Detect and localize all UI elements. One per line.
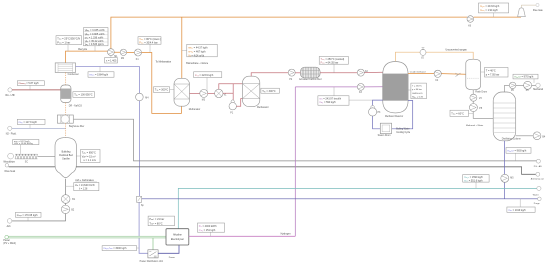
value box NaNO3 flow bbox=[17, 81, 44, 90]
mixer M4 on water line bbox=[136, 93, 150, 101]
svg-text:yₕ₂ = 1.336 vol%: yₕ₂ = 1.336 vol% bbox=[85, 36, 104, 39]
baghouse filter unit bbox=[57, 115, 84, 128]
svg-text:mₕ₂ₒ = 1984 kg/h: mₕ₂ₒ = 1984 kg/h bbox=[89, 74, 108, 77]
value box flash drum conditions bbox=[481, 68, 508, 78]
svg-text:Cooling Cycle: Cooling Cycle bbox=[396, 132, 411, 134]
stream label Flue Gas bbox=[533, 9, 544, 12]
methanator column R1 bbox=[174, 78, 201, 111]
wire dashed orange condenser to DR vessel bbox=[65, 72, 67, 85]
stream label boiling water cycle bbox=[396, 128, 411, 134]
steam drum heat exchanger bbox=[378, 123, 392, 137]
svg-text:Vᵍ = 4.04 m³/h: Vᵍ = 4.04 m³/h bbox=[188, 54, 205, 57]
svg-text:p = 7.05 bar: p = 7.05 bar bbox=[486, 73, 500, 76]
activated carbon guard bed bbox=[299, 67, 322, 81]
mixer M2 bbox=[120, 49, 126, 60]
svg-text:Pₑₗₑᶜ = 21 bar: Pₑₗₑᶜ = 21 bar bbox=[149, 218, 164, 221]
wire biomass line into gasifier bbox=[38, 156, 56, 158]
pump K7 bbox=[469, 104, 482, 112]
wire pink M3 to valve V1 bbox=[207, 92, 214, 94]
wire pink bed to compressor K2 to reactor bbox=[320, 71, 383, 74]
svg-text:mₘₑₒₕ = 983 kg/h: mₘₑₒₕ = 983 kg/h bbox=[507, 150, 527, 153]
svg-text:Electrolyser: Electrolyser bbox=[171, 238, 184, 241]
condenser heat exchanger bbox=[55, 63, 79, 76]
svg-text:Pₒᵤₜ = 1 bar: Pₒᵤₜ = 1 bar bbox=[57, 42, 70, 45]
svg-text:x = 1.405: x = 1.405 bbox=[106, 59, 117, 62]
svg-text:Purge: Purge bbox=[534, 202, 541, 205]
mixer M1 bbox=[108, 49, 119, 58]
valve V1 bbox=[215, 89, 228, 97]
svg-text:Tₒₚ = 300°C: Tₒₚ = 300°C bbox=[155, 89, 169, 92]
svg-text:Gasifier: Gasifier bbox=[62, 158, 70, 161]
reboiler B4 bbox=[533, 132, 546, 140]
wire flash drum bottoms down bbox=[473, 90, 493, 119]
svg-text:Fluidized Bed: Fluidized Bed bbox=[59, 155, 73, 157]
alkaline electrolyser unit bbox=[166, 229, 189, 245]
svg-text:mₐₛₕ = 170.08 kg/h: mₐₛₕ = 170.08 kg/h bbox=[17, 214, 38, 217]
wire gray baghouse outlet to producer gas header bbox=[74, 119, 537, 161]
condenser pump C1 bbox=[509, 82, 516, 92]
power distribution unit bbox=[140, 250, 164, 263]
svg-text:Power Distribution Unit: Power Distribution Unit bbox=[140, 260, 164, 263]
svg-text:T = 250°C: T = 250°C bbox=[412, 86, 422, 88]
stream label methanol product bbox=[533, 88, 543, 91]
svg-text:Recycle: Recycle bbox=[78, 48, 88, 51]
value box outlet temperature bbox=[450, 110, 473, 116]
wire M1 to M2 bbox=[114, 51, 120, 53]
svg-text:T = 40°C: T = 40°C bbox=[486, 69, 496, 72]
value box R1 temperature bbox=[154, 87, 175, 93]
svg-text:Activated Carbon Bed: Activated Carbon Bed bbox=[299, 78, 322, 81]
svg-text:yᶄₒ₂ = 0.905 vol%: yᶄₒ₂ = 0.905 vol% bbox=[85, 33, 105, 36]
check valve mark bbox=[456, 73, 461, 77]
gasifier vessel bbox=[55, 138, 76, 178]
value box methanol product bbox=[513, 74, 538, 83]
svg-text:mₙ₂ = 117.9 kg/h: mₙ₂ = 117.9 kg/h bbox=[19, 121, 38, 124]
wire pale orange recycle reactor top from flash drum bbox=[395, 52, 473, 61]
svg-text:Methanol: Methanol bbox=[533, 88, 543, 91]
wire: orange top recycle line M1 to flare bbox=[111, 17, 521, 49]
value box syngas flow bbox=[194, 72, 222, 94]
methanator column R2 bbox=[243, 76, 269, 109]
outlet circle ash bbox=[7, 219, 12, 229]
wire reboiler line bbox=[516, 135, 533, 137]
wire M2 to K1 bbox=[127, 51, 135, 53]
methanol reactor vessel bbox=[383, 62, 408, 118]
svg-text:Flash Drum: Flash Drum bbox=[475, 90, 487, 93]
value box T/P after condenser bbox=[56, 36, 82, 51]
svg-text:Methanol Reactor: Methanol Reactor bbox=[385, 115, 403, 118]
splitter S1 on water line bbox=[137, 196, 145, 207]
svg-text:N2 - Fluid.: N2 - Fluid. bbox=[6, 133, 17, 135]
svg-text:yₙ₂ = 0.633 ppmv: yₙ₂ = 0.633 ppmv bbox=[85, 43, 105, 46]
value box demin water bbox=[102, 246, 139, 251]
svg-text:Olive husk: Olive husk bbox=[4, 171, 16, 173]
value box electrolyser water oxygen bbox=[463, 175, 489, 189]
outlet circle water bbox=[533, 186, 541, 196]
steam loop wire reactor cooling bbox=[373, 100, 413, 129]
wire purple hydrogen to compressor K3 and reactor bbox=[295, 86, 382, 88]
pump P3 steam loop with motor dome bbox=[369, 105, 382, 116]
svg-text:Boiling Water: Boiling Water bbox=[396, 128, 410, 131]
svg-text:Biomethane - mixture: Biomethane - mixture bbox=[186, 62, 209, 65]
feed circle renewable power bbox=[3, 235, 16, 245]
valve V3 bbox=[470, 94, 483, 101]
svg-text:Vᵦₑᵈ = 15 m³: Vᵦₑᵈ = 15 m³ bbox=[82, 155, 96, 158]
svg-text:Water: Water bbox=[533, 193, 539, 196]
value box air flow bbox=[66, 183, 99, 191]
compressor K3 bbox=[357, 84, 364, 95]
node label Recycle bbox=[78, 48, 88, 51]
wire green drop to power distribution unit bbox=[152, 238, 154, 250]
outlet circle purge bbox=[534, 197, 541, 205]
svg-text:LHV = 19.96 MJ/kg: LHV = 19.96 MJ/kg bbox=[14, 143, 33, 145]
svg-text:mₙₐₙₒ₃ = 5.87 kg/h: mₙₐₙₒ₃ = 5.87 kg/h bbox=[19, 82, 40, 85]
svg-text:PG - AD: PG - AD bbox=[534, 165, 542, 168]
wire dashed orange baghouse to gasifier top bbox=[65, 123, 67, 137]
mixer M5 bbox=[501, 174, 514, 182]
feed circle N2 bbox=[6, 126, 17, 135]
wire pink V1 up and to methanator R2 bbox=[219, 84, 243, 103]
svg-text:Xᶄₒ₂ = 0.35: Xᶄₒ₂ = 0.35 bbox=[412, 96, 424, 98]
wire: orange recycle gas line condenser-to-mixer M1 bbox=[66, 51, 108, 63]
wire dashed orange DR to baghouse filter bbox=[65, 103, 67, 116]
pump P1 with motor dome bbox=[229, 100, 236, 115]
wire pink P1 discharge into R2 bottom bbox=[236, 99, 242, 107]
value box bed outlet above bbox=[319, 57, 348, 73]
svg-text:Baghouse filter: Baghouse filter bbox=[69, 125, 85, 128]
wire orange K1 to methanator R1 bottom bbox=[142, 53, 182, 114]
outlet circle methanol bbox=[536, 83, 540, 87]
svg-text:mₘₑₒₕ = 970 kg/h: mₘₑₒₕ = 970 kg/h bbox=[514, 76, 534, 79]
wire purple hydrogen header vertical bbox=[294, 87, 296, 236]
stream label power bbox=[169, 256, 175, 259]
wire blue power PDU to electrolyser bbox=[158, 245, 179, 253]
wire distillate overhead line bbox=[505, 85, 536, 92]
relief valve V2 on recycle bbox=[420, 48, 426, 60]
svg-text:u = 1.1 m/s: u = 1.1 m/s bbox=[84, 159, 97, 162]
wire producer gas from gasifier right to ammonia outlet bbox=[76, 167, 536, 175]
svg-text:λ = 1.28: λ = 1.28 bbox=[79, 189, 88, 191]
blower B1 bbox=[61, 195, 75, 204]
value box electrolyser conditions bbox=[148, 216, 174, 226]
wire indigo waste water header bbox=[142, 198, 538, 200]
svg-text:Power: Power bbox=[3, 239, 10, 242]
stream label methanol water bbox=[466, 124, 484, 127]
svg-text:To Methanation: To Methanation bbox=[156, 61, 172, 64]
svg-text:mᵥᵥ = 1019 kg/h: mᵥᵥ = 1019 kg/h bbox=[508, 209, 526, 212]
svg-text:Power: Power bbox=[169, 256, 175, 259]
feed circle olive husk bbox=[4, 164, 16, 173]
value box gasifier conditions bbox=[76, 150, 100, 163]
svg-text:nₕ₂ = 243.97 kmol/h: nₕ₂ = 243.97 kmol/h bbox=[319, 97, 342, 100]
flash drum vessel bbox=[466, 59, 487, 93]
feed circle RA-LHF bbox=[6, 88, 16, 97]
compressor K2 bbox=[357, 69, 368, 76]
svg-text:DR - NaNO3: DR - NaNO3 bbox=[69, 106, 83, 108]
wire pink R2 top to guard bed bbox=[251, 73, 288, 76]
pump P2 bbox=[288, 69, 295, 81]
wire column bottoms down to mixer M5 bbox=[504, 141, 506, 199]
wire teal oxygen water line from electrolyser bbox=[178, 188, 537, 228]
condenser K8 bbox=[524, 81, 532, 92]
solids discharge wire from gasifier bottom bbox=[12, 179, 66, 221]
stream label Woodchips bbox=[3, 162, 15, 164]
value box N2 flow bbox=[17, 119, 45, 128]
svg-text:Distillation Column: Distillation Column bbox=[502, 137, 522, 140]
svg-text:Bubbling: Bubbling bbox=[62, 151, 72, 153]
svg-text:Methanator: Methanator bbox=[189, 108, 201, 111]
svg-text:GHSV=0.5: GHSV=0.5 bbox=[412, 93, 423, 95]
wire olive husk line into gasifier bbox=[9, 166, 55, 168]
svg-text:mᵍₐₛ = 44.37 kg/h: mᵍₐₛ = 44.37 kg/h bbox=[188, 46, 208, 49]
screw conveyor SC feed bbox=[8, 153, 38, 163]
value box hydrogen production bbox=[198, 223, 225, 236]
svg-text:Methanol + Water: Methanol + Water bbox=[466, 124, 484, 127]
svg-text:Pₑₗ = 4000 kW/h: Pₑₗ = 4000 kW/h bbox=[199, 225, 217, 228]
value box R2 temperature bbox=[261, 88, 280, 93]
wire orange recycle drop into methanator R1 top bbox=[181, 17, 183, 78]
svg-text:Tₒᵤₜ = 25°C/350°C/N: Tₒᵤₜ = 25°C/350°C/N bbox=[57, 38, 80, 41]
svg-text:Methanator: Methanator bbox=[257, 106, 269, 109]
mixer M3 bbox=[200, 89, 208, 101]
packed vessel DR-NaNO3 bbox=[61, 85, 83, 108]
svg-text:Ammonia out: Ammonia out bbox=[531, 178, 544, 181]
value box bottoms flow bbox=[506, 148, 531, 162]
value box recycle gas composition bbox=[182, 44, 217, 57]
stream label crude methanol bbox=[410, 71, 426, 74]
distillation column bbox=[493, 92, 521, 141]
svg-text:p = 80 bar: p = 80 bar bbox=[412, 88, 422, 91]
svg-text:Flue Gas: Flue Gas bbox=[533, 9, 544, 12]
svg-text:Vₐᵢᵣ = 13,640 Nm³/h: Vₐᵢᵣ = 13,640 Nm³/h bbox=[75, 184, 96, 187]
wire pink R1 outlet to M3 bbox=[190, 92, 201, 94]
svg-text:Alkaline: Alkaline bbox=[173, 234, 182, 237]
svg-text:SC: SC bbox=[25, 162, 29, 164]
svg-text:Pₒᵤₜ = 64.35 bar: Pₒᵤₜ = 64.35 bar bbox=[321, 62, 339, 65]
value box DR temperature bbox=[73, 92, 95, 98]
svg-text:Woodchips: Woodchips bbox=[3, 162, 15, 164]
value box ash flow bbox=[15, 212, 41, 221]
value box after K1 bbox=[138, 37, 161, 53]
svg-text:Crude methanol: Crude methanol bbox=[410, 71, 426, 74]
value box biomass feed bbox=[13, 140, 39, 154]
value box hydrogen flow bbox=[318, 87, 373, 105]
svg-text:Steam Drum: Steam Drum bbox=[378, 134, 391, 137]
value box condensate flow bbox=[88, 67, 114, 78]
svg-text:mₛᵧ = 223.9 kg/h: mₛᵧ = 223.9 kg/h bbox=[195, 74, 214, 77]
svg-text:Hydrogen: Hydrogen bbox=[281, 232, 292, 235]
stream label to methanation bbox=[156, 61, 172, 64]
value box vapor fraction under M1 bbox=[105, 56, 118, 64]
stream label hydrogen bbox=[281, 232, 292, 235]
outlet circle producer gas to AD bbox=[534, 159, 542, 168]
svg-text:Tₒᵤₜ = 60°C: Tₒᵤₜ = 60°C bbox=[451, 112, 464, 115]
compressor K6 on top line bbox=[467, 16, 474, 28]
flare stack bbox=[518, 3, 540, 16]
svg-text:mₒᵤₜ = 1.94 kg/h: mₒᵤₜ = 1.94 kg/h bbox=[480, 9, 498, 12]
svg-text:Unconverted syngas: Unconverted syngas bbox=[446, 49, 468, 52]
value box waste water bbox=[507, 199, 535, 213]
outlet circle ammonia bbox=[531, 172, 544, 180]
svg-text:Tₒₚ = 300°C: Tₒₚ = 300°C bbox=[262, 90, 276, 93]
compressor K1 bbox=[135, 49, 142, 61]
stream label unconverted syngas bbox=[446, 49, 468, 52]
svg-text:(PV + Wind): (PV + Wind) bbox=[3, 243, 16, 245]
svg-text:Tₒₚ = 100-550°C: Tₒₚ = 100-550°C bbox=[74, 94, 93, 97]
svg-text:yᶄₕ₄ = 3.035 vol%: yᶄₕ₄ = 3.035 vol% bbox=[85, 29, 106, 32]
svg-text:RA - LHF: RA - LHF bbox=[6, 94, 16, 97]
blower B2 bbox=[61, 205, 75, 213]
green power supply band bbox=[8, 236, 166, 238]
wire dark red RA feed to DR vessel bbox=[12, 89, 61, 91]
svg-text:Condenser: Condenser bbox=[68, 73, 79, 76]
wire orange reactor outlet to flash drum bbox=[408, 73, 466, 76]
value box reactor conditions bbox=[408, 83, 426, 99]
svg-text:Pₒᵤₜ = 30/4.4 bar: Pₒᵤₜ = 30/4.4 bar bbox=[139, 42, 158, 45]
wire magenta hydrogen electrolyser to header bbox=[189, 235, 295, 237]
svg-text:Tₑₗₑᶜ = 80°C: Tₑₗₑᶜ = 80°C bbox=[149, 222, 162, 225]
wire blue condensate water line to mixer M4 bbox=[76, 67, 140, 197]
wire pink P2 to bed bbox=[295, 72, 300, 74]
svg-text:mₕ₂ = 151 kg/h: mₕ₂ = 151 kg/h bbox=[199, 229, 216, 232]
svg-text:mᶜₕ₄ = 467 kg/h: mᶜₕ₄ = 467 kg/h bbox=[188, 50, 206, 53]
svg-text:mₕ₂ₒ,ᵈₑₘ = 3000 kg/h: mₕ₂ₒ,ᵈₑₘ = 3000 kg/h bbox=[103, 247, 127, 250]
svg-text:Tᵧₐₛ = 850°C: Tᵧₐₛ = 850°C bbox=[82, 152, 96, 155]
wire N2 fluidization line bbox=[12, 127, 66, 129]
svg-text:mₒ₂ = 551.6 kg/h: mₒ₂ = 551.6 kg/h bbox=[464, 180, 483, 183]
value box purge stream bbox=[479, 3, 509, 17]
svg-text:mₕ₂ = 590 kg/h: mₕ₂ = 590 kg/h bbox=[319, 101, 336, 104]
svg-text:mₚᵤᵣ = 29.33 kg/h: mₚᵤᵣ = 29.33 kg/h bbox=[480, 5, 500, 8]
wire blue water line splitter down to PDU level bbox=[139, 202, 148, 253]
stream label biomethane mixture bbox=[186, 62, 209, 65]
cooler K5 bbox=[434, 70, 441, 82]
stream label air carbonates underlined bbox=[75, 179, 97, 182]
value box gas composition (5 rows) bbox=[84, 28, 109, 51]
